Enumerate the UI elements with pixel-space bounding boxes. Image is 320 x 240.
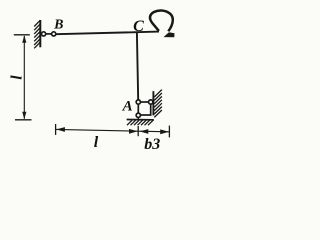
stub from bottom-left pin to ground — [137, 116, 139, 120]
wall hatching right of A — [154, 90, 162, 118]
left dimension down arrow — [22, 112, 26, 119]
svg-text:A: A — [122, 98, 133, 114]
support block square at A — [138, 102, 150, 115]
vertical member C-A — [137, 33, 138, 101]
ground line under A — [127, 119, 154, 121]
svg-text:B: B — [53, 18, 63, 33]
bottom dimension line — [56, 129, 169, 131]
pin circle bottom-left — [136, 113, 140, 117]
arrow right (span b3) — [160, 129, 169, 134]
left dimension up arrow — [22, 35, 26, 42]
wall pin circle — [42, 32, 46, 36]
wall line right of A — [152, 91, 154, 115]
pin A circle (top-left) — [136, 100, 140, 104]
wall hatching at B — [34, 21, 40, 49]
link between wall pin and pin B — [44, 33, 53, 35]
left dimension: top tick — [14, 34, 30, 36]
beam B-C — [56, 32, 159, 35]
wall line at B — [39, 20, 41, 47]
svg-text:b3: b3 — [144, 136, 160, 153]
pin circle top-right — [149, 100, 153, 104]
stub from top-right pin to wall — [151, 101, 154, 103]
bottom dimension right tick — [168, 126, 170, 138]
bottom dimension middle tick — [137, 126, 139, 136]
arrow left (span b3) — [140, 129, 149, 134]
pin B circle — [52, 32, 56, 36]
bottom dimension left tick — [55, 124, 57, 135]
left dimension: bottom tick — [15, 119, 32, 121]
moment arrow (curl) — [150, 11, 173, 32]
svg-text:l: l — [9, 75, 26, 80]
arrow right (span l) — [129, 129, 138, 134]
svg-text:l: l — [94, 134, 99, 151]
svg-text:C: C — [133, 18, 144, 35]
moment arrowhead — [164, 32, 175, 37]
arrow left (span l) — [56, 127, 65, 132]
left dimension line — [23, 36, 25, 119]
ground hatching under A — [127, 120, 154, 126]
